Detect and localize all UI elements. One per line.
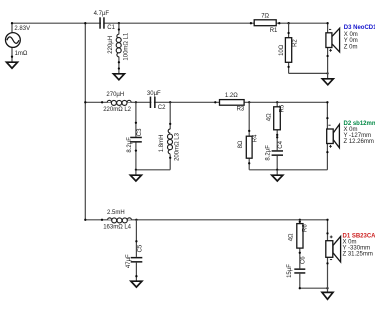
node dot L1 ground [118, 67, 120, 69]
capacitor C4 [266, 136, 285, 160]
node dot R6 tap [299, 219, 301, 221]
node dot source top [11, 22, 13, 24]
ground mid left [130, 175, 141, 181]
svg-text:163mΩ L4: 163mΩ L4 [103, 224, 131, 230]
svg-text:R3: R3 [237, 106, 245, 112]
svg-text:4Ω: 4Ω [267, 113, 273, 121]
svg-text:Z 0m: Z 0m [344, 44, 358, 50]
svg-text:2.5mH: 2.5mH [107, 210, 125, 216]
svg-text:1mΩ: 1mΩ [15, 51, 28, 57]
wire C3 branch [135, 102, 137, 170]
svg-text:D3 NeoCD1.0: D3 NeoCD1.0 [344, 25, 375, 31]
wire D3 vertical [327, 23, 329, 79]
capacitor C2 [147, 91, 166, 111]
resistor R4 [238, 130, 259, 165]
wire D1 vertical [327, 220, 329, 288]
capacitor C5 [126, 240, 143, 277]
node dot top gnd corner [326, 72, 328, 74]
driver D3 labels [344, 25, 375, 51]
driver D3 speaker [326, 28, 340, 57]
wire D2 vertical [326, 102, 328, 170]
svg-text:C4: C4 [278, 140, 284, 148]
svg-text:Y -127mm: Y -127mm [344, 133, 372, 139]
node dot midgnd left [135, 169, 137, 171]
svg-text:Y -330mm: Y -330mm [343, 246, 371, 252]
svg-text:8.2µF: 8.2µF [266, 145, 272, 161]
wire L3 branch [169, 102, 171, 170]
ground below C5 [131, 281, 142, 287]
svg-text:15µF: 15µF [287, 264, 293, 278]
node dot D1 top corner [326, 219, 328, 221]
svg-text:X 0m: X 0m [343, 239, 357, 245]
svg-text:R5: R5 [280, 104, 286, 112]
node dot D2 top corner [326, 101, 328, 103]
ground top branch [322, 79, 333, 85]
inductor L1 [108, 28, 129, 63]
wire midgnd2 stem [276, 170, 278, 175]
svg-text:200mΩ L3: 200mΩ L3 [175, 132, 181, 160]
resistor R3 [214, 93, 250, 113]
svg-text:R1: R1 [270, 28, 278, 34]
resistor R5 [267, 104, 286, 136]
node dot C3 tap [135, 101, 137, 103]
driver D2 labels [344, 121, 375, 145]
driver D1 speaker [326, 232, 341, 264]
svg-text:C1: C1 [107, 25, 115, 31]
svg-text:Z 12.26mm: Z 12.26mm [344, 139, 374, 145]
resistor R6 [288, 221, 308, 254]
resistor R2 [279, 32, 299, 68]
svg-text:C6: C6 [300, 256, 306, 264]
svg-text:30µF: 30µF [147, 91, 161, 97]
svg-text:R2: R2 [292, 39, 298, 47]
svg-text:4.7µF: 4.7µF [94, 11, 110, 17]
node dot D3 top [326, 22, 328, 24]
svg-text:D2 sb12mnw2: D2 sb12mnw2 [344, 121, 375, 127]
svg-text:1.2Ω: 1.2Ω [225, 93, 238, 99]
node A bus/top junction [84, 22, 86, 24]
capacitor C6 [287, 256, 306, 278]
node dot R2 tap [287, 22, 289, 24]
node dot midgnd right C4 [276, 169, 278, 171]
svg-text:C5: C5 [137, 244, 143, 252]
resistor R1 [250, 14, 281, 35]
svg-text:10Ω: 10Ω [279, 44, 285, 56]
inductor L3 [159, 123, 181, 161]
svg-text:Z 31.25mm: Z 31.25mm [343, 252, 373, 258]
svg-text:8Ω: 8Ω [238, 140, 244, 148]
node dot R5 tap [276, 101, 278, 103]
svg-text:2.83V: 2.83V [14, 26, 30, 32]
node dot C5 tap [135, 219, 137, 221]
capacitor C1 [94, 11, 116, 31]
ground bottom branch [322, 292, 333, 299]
wire top net from source to tweeter [12, 22, 328, 24]
wire L1 branch [118, 23, 120, 74]
wire top branch ground net [289, 72, 328, 74]
ground mid right [272, 175, 283, 181]
node dot bus bottom corner [84, 219, 86, 221]
inductor L4 [101, 210, 132, 230]
wire botgnd stem [327, 288, 329, 292]
wire source top stem [11, 23, 13, 33]
node B bus/middle junction [84, 101, 86, 103]
svg-text:7Ω: 7Ω [261, 14, 269, 20]
svg-text:4Ω: 4Ω [288, 233, 294, 241]
svg-text:220µH: 220µH [108, 36, 114, 54]
driver D2 speaker [326, 117, 339, 153]
node dot L1 tap [118, 22, 120, 24]
svg-text:R6: R6 [303, 224, 309, 232]
wire R4 branch [248, 102, 250, 170]
svg-text:220mΩ L2: 220mΩ L2 [103, 107, 131, 113]
svg-text:47µF: 47µF [126, 254, 132, 268]
wire source bottom stem [11, 47, 13, 62]
voltage source V1 [5, 26, 30, 57]
svg-text:Y 0m: Y 0m [344, 38, 358, 44]
ground below source [7, 62, 18, 68]
node dot botgnd right [326, 287, 328, 289]
svg-text:8.2µF: 8.2µF [127, 137, 133, 153]
svg-text:C3: C3 [137, 128, 143, 136]
driver D1 labels [343, 233, 375, 257]
svg-text:270µH: 270µH [106, 92, 124, 98]
wire R5/C4 branch [276, 102, 278, 170]
svg-text:1.8mH: 1.8mH [159, 135, 165, 153]
wire midgnd stem [135, 170, 137, 175]
wire middle branch net [85, 101, 327, 103]
node dot L3 tap [169, 101, 171, 103]
capacitor C3 [127, 122, 143, 153]
wire bottom ground net [300, 287, 328, 289]
svg-text:R4: R4 [253, 134, 259, 142]
svg-text:X 0m: X 0m [344, 127, 358, 133]
wire bottom branch net [85, 219, 327, 221]
wire mid ground net right [249, 169, 327, 171]
node dot source bottom [11, 56, 13, 58]
inductor L2 [101, 92, 132, 113]
node dot botgnd left [299, 287, 301, 289]
wire mid ground net left [136, 169, 170, 171]
svg-text:100mΩ L1: 100mΩ L1 [123, 32, 129, 60]
wire main vertical bus [84, 23, 86, 220]
wire C5 branch [135, 220, 137, 281]
wire R2 branch [288, 23, 290, 73]
ground below L1 [113, 74, 124, 80]
wire R6/C6 branch [299, 220, 301, 288]
svg-text:C2: C2 [158, 105, 166, 111]
